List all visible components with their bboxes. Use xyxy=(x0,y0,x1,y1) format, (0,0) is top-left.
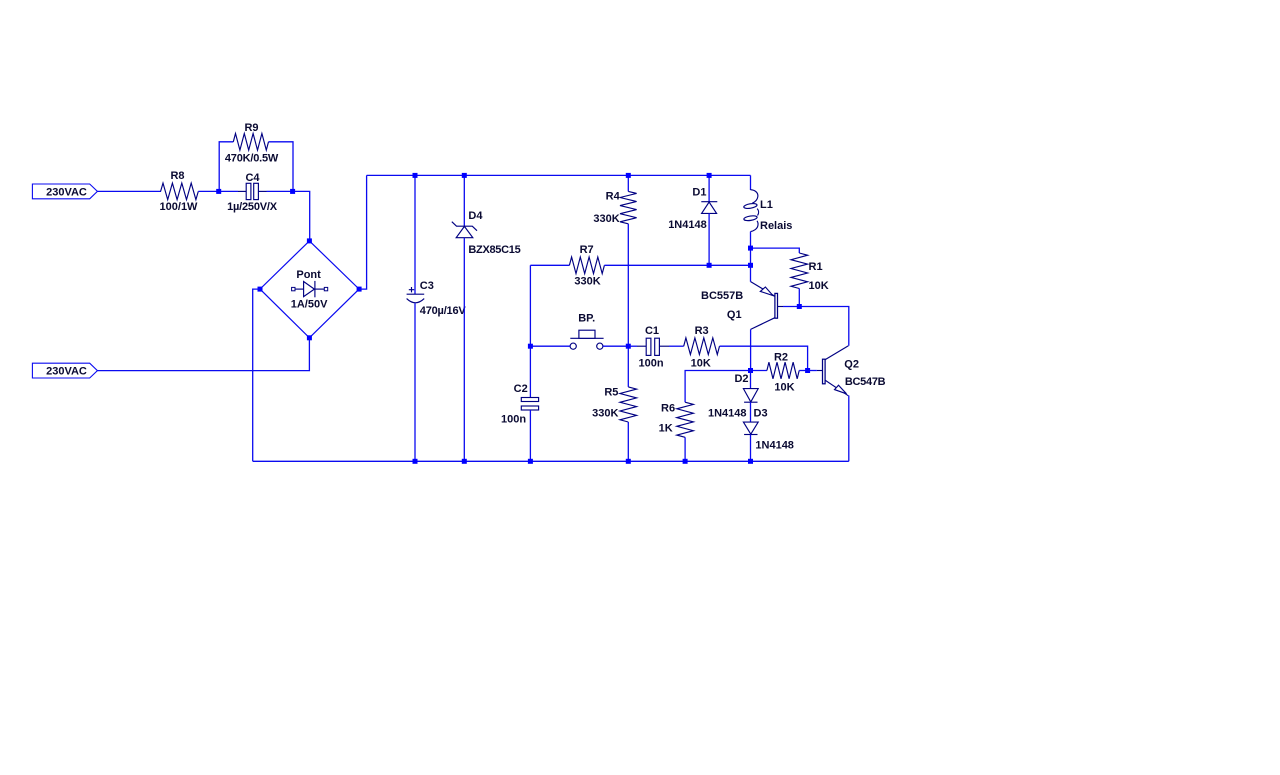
transistor Q2 BC547B xyxy=(825,346,848,360)
wire: C4 to node to bridge top xyxy=(267,190,293,192)
svg-text:R4: R4 xyxy=(606,191,621,203)
svg-text:BC557B: BC557B xyxy=(701,290,743,302)
svg-text:100n: 100n xyxy=(639,357,664,369)
svg-text:330K: 330K xyxy=(574,275,600,287)
wire: R3 right to Q2 base drop xyxy=(720,346,808,370)
svg-text:330K: 330K xyxy=(592,408,618,420)
bridge node bottom xyxy=(307,335,312,340)
wire: port2 to bridge bottom xyxy=(97,338,309,371)
wire: R9 branch left vertical xyxy=(219,142,233,192)
svg-text:R8: R8 xyxy=(170,170,184,182)
wire: L1 to R7 row xyxy=(750,232,752,266)
top rail junction nodes xyxy=(413,173,418,178)
wire: R5 to bottom rail xyxy=(627,422,629,461)
junction node R2 right / Q2 base xyxy=(805,368,810,373)
svg-text:230VAC: 230VAC xyxy=(46,366,87,378)
wire: Q1 base to node and to Q2 collector xyxy=(783,307,849,346)
push button BP. xyxy=(570,337,603,339)
resistor R7 xyxy=(530,264,569,266)
wire: R7 to D1 node and relay node xyxy=(604,264,750,266)
zener diode D4 xyxy=(463,175,465,226)
svg-text:330K: 330K xyxy=(593,213,619,225)
svg-text:D1: D1 xyxy=(692,186,706,198)
junction node R7/emitter xyxy=(748,263,753,268)
bottom rail junction nodes xyxy=(413,459,418,464)
svg-text:R3: R3 xyxy=(695,325,709,337)
svg-text:D2: D2 xyxy=(734,373,748,385)
svg-text:100n: 100n xyxy=(501,414,526,426)
relay coil L1 xyxy=(750,175,752,190)
junction node R1 bottom / base xyxy=(797,304,802,309)
resistor R9 xyxy=(233,134,268,151)
junction node C4 right xyxy=(290,189,295,194)
junction node relay bottom xyxy=(748,246,753,251)
svg-text:L1: L1 xyxy=(760,199,773,211)
svg-text:BZX85C15: BZX85C15 xyxy=(468,244,520,256)
230VAC port 2 xyxy=(32,363,97,378)
svg-text:BC547B: BC547B xyxy=(845,376,886,388)
junction node BP left / C2 xyxy=(528,344,533,349)
bridge node right xyxy=(357,287,362,292)
bridge rectifier Pont diamond xyxy=(260,241,359,338)
svg-text:D3: D3 xyxy=(754,407,768,419)
diode D3 xyxy=(743,422,758,434)
svg-text:10K: 10K xyxy=(809,280,829,292)
svg-text:R5: R5 xyxy=(604,386,618,398)
wire: R9 branch right vertical xyxy=(269,142,294,192)
resistor R8 xyxy=(161,183,199,200)
svg-text:230VAC: 230VAC xyxy=(46,187,87,199)
bridge inner diode symbol xyxy=(292,287,295,290)
wire: C2 to bottom rail xyxy=(529,410,531,461)
wire: bridge left to bottom rail xyxy=(253,289,260,461)
svg-text:Q1: Q1 xyxy=(727,309,742,321)
junction node Q1 collector / R2 / R6 / D2 xyxy=(748,368,753,373)
svg-text:470µ/16V: 470µ/16V xyxy=(420,305,467,317)
svg-text:D4: D4 xyxy=(468,210,483,222)
svg-text:10K: 10K xyxy=(774,381,794,393)
transistor Q1 BC557B xyxy=(750,265,752,281)
svg-text:C2: C2 xyxy=(514,383,528,395)
wire: BP row right xyxy=(603,345,628,347)
svg-text:470K/0.5W: 470K/0.5W xyxy=(225,152,279,164)
wire: top rail xyxy=(367,174,751,176)
diode D1 xyxy=(708,175,710,201)
bridge node top xyxy=(307,238,312,243)
capacitor C4 xyxy=(238,190,246,192)
svg-text:C1: C1 xyxy=(645,325,659,337)
svg-text:Relais: Relais xyxy=(760,220,792,232)
svg-text:1A/50V: 1A/50V xyxy=(291,299,328,311)
wire: D3 to bottom rail xyxy=(750,435,752,462)
svg-text:100/1W: 100/1W xyxy=(160,201,199,213)
wire: D2 to D3 xyxy=(750,402,752,422)
svg-text:Q2: Q2 xyxy=(844,359,859,371)
resistor R1 xyxy=(751,248,800,253)
svg-text:R6: R6 xyxy=(661,403,675,415)
capacitor C2 xyxy=(529,346,531,397)
capacitor C3 xyxy=(414,175,416,294)
svg-text:C3: C3 xyxy=(420,280,434,292)
bridge node left xyxy=(258,287,263,292)
svg-text:R7: R7 xyxy=(580,244,594,256)
svg-text:R9: R9 xyxy=(244,122,258,134)
svg-text:R2: R2 xyxy=(774,351,788,363)
wire: Q1 collector down xyxy=(750,329,752,370)
svg-text:1N4148: 1N4148 xyxy=(668,219,707,231)
junction node BP right / R4R5 line xyxy=(626,344,631,349)
svg-text:Pont: Pont xyxy=(296,269,321,281)
diode D2 xyxy=(750,371,752,389)
wire: Q2 emitter to bottom rail xyxy=(848,396,850,462)
wire: bridge right to top rail xyxy=(359,175,367,289)
resistor R4 xyxy=(627,175,629,191)
svg-text:BP.: BP. xyxy=(578,312,595,324)
wire: port1 to R8 xyxy=(97,190,161,192)
wire: R7 left drop to BP row xyxy=(529,265,531,346)
svg-text:10K: 10K xyxy=(691,357,711,369)
wire: C1 to R3 xyxy=(669,345,684,347)
svg-text:1K: 1K xyxy=(659,422,673,434)
resistor R6 xyxy=(685,371,750,403)
wire: node to C4 xyxy=(219,190,238,192)
junction node R8/C4 left xyxy=(216,189,221,194)
wire: bottom rail xyxy=(253,460,849,462)
capacitor C1 xyxy=(628,345,637,347)
svg-text:R1: R1 xyxy=(809,261,823,273)
resistor R5 xyxy=(620,387,637,422)
wire: R8 to node xyxy=(198,190,219,192)
resistor R3 xyxy=(684,338,720,355)
junction node D1 bottom xyxy=(707,263,712,268)
230VAC port 1 xyxy=(32,184,97,199)
resistor R2 xyxy=(751,370,767,372)
svg-text:1N4148: 1N4148 xyxy=(708,407,747,419)
wire: BP row left xyxy=(530,345,570,347)
svg-text:1µ/250V/X: 1µ/250V/X xyxy=(227,201,278,213)
svg-text:C4: C4 xyxy=(245,172,260,184)
svg-text:1N4148: 1N4148 xyxy=(755,440,794,452)
wire: R4 bottom down through BP row to R5 xyxy=(627,224,629,387)
